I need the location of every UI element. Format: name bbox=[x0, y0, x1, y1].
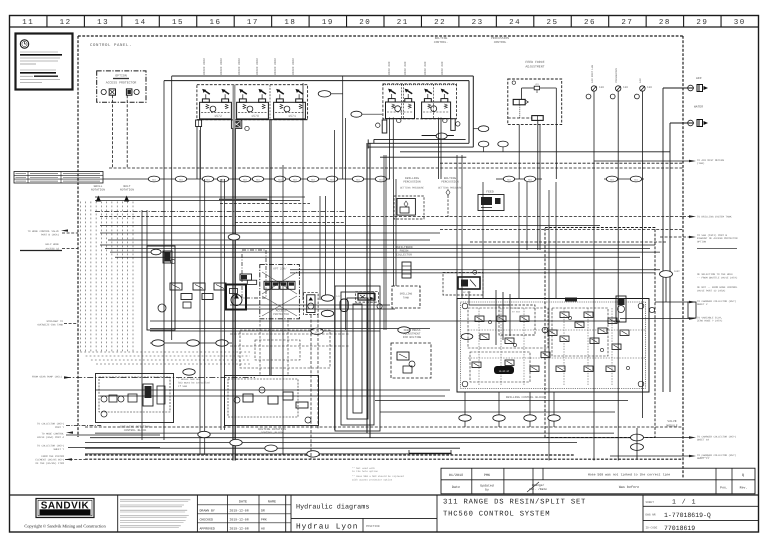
svg-text:CONTROL BLOCK: CONTROL BLOCK bbox=[124, 429, 147, 432]
ellipse 503 bbox=[498, 141, 508, 147]
black valve left-center bbox=[240, 274, 252, 280]
labelled ellipse 160 right bbox=[660, 271, 673, 278]
dashed comb verticals bbox=[79, 202, 81, 353]
svg-text:21: 21 bbox=[397, 18, 409, 27]
svg-text:MODULE: MODULE bbox=[666, 424, 677, 428]
accumulator center bbox=[304, 293, 319, 315]
center ellipses bbox=[321, 295, 333, 301]
main dashed frame left bbox=[77, 36, 79, 437]
svg-text:ROTATION: ROTATION bbox=[91, 188, 105, 191]
thick bar below 1S69 bbox=[219, 199, 267, 201]
bolting rotation control block bbox=[225, 376, 319, 426]
svg-text:19: 19 bbox=[322, 18, 334, 27]
filter unit tall box bbox=[147, 246, 175, 330]
lower wire ellipses row bbox=[459, 415, 471, 421]
legal text bbox=[120, 499, 190, 501]
ellipse right of bank A bbox=[318, 91, 331, 97]
valves row center-left bbox=[170, 283, 182, 290]
annotation TO AIR MIST METERS bbox=[689, 160, 696, 162]
svg-text:1S72: 1S72 bbox=[214, 114, 222, 118]
drilling rotation control block bbox=[96, 374, 174, 423]
wires below access protector bbox=[495, 290, 497, 345]
svg-text:PORT ?: PORT ? bbox=[55, 426, 65, 429]
svg-text:160: 160 bbox=[647, 86, 652, 89]
access protector bold box bbox=[443, 273, 483, 296]
small box above revision table bbox=[408, 450, 410, 453]
svg-text:VALVE (05A) PORT A: VALVE (05A) PORT A bbox=[37, 436, 65, 439]
access protector option box bbox=[97, 71, 146, 102]
svg-text:SHEET ?: SHEET ? bbox=[53, 448, 64, 451]
svg-text:THC560 CONTROL SYSTEM: THC560 CONTROL SYSTEM bbox=[443, 511, 550, 519]
svg-text:1-77018619-Q: 1-77018619-Q bbox=[664, 512, 711, 519]
svg-text:PORT B (05A): PORT B (05A) bbox=[41, 233, 60, 236]
svg-text:26: 26 bbox=[584, 18, 596, 27]
svg-text:XXXX XXX: XXXX XXX bbox=[404, 61, 407, 75]
svg-text:AG: AG bbox=[261, 527, 265, 531]
svg-text:HELP HOSE: HELP HOSE bbox=[45, 243, 59, 246]
svg-text:1S71: 1S71 bbox=[288, 114, 296, 118]
dcb circles bbox=[462, 303, 468, 309]
svg-text:to the hole option: to the hole option bbox=[352, 470, 378, 473]
access protector symbols bbox=[101, 89, 106, 94]
svg-text:CONTROL.: CONTROL. bbox=[434, 41, 449, 44]
svg-text:OVERSIZE-ING TANK: OVERSIZE-ING TANK bbox=[37, 323, 63, 326]
svg-text:if 560: if 560 bbox=[178, 385, 188, 388]
svg-text:Copyright © Sandvik Mining and: Copyright © Sandvik Mining and Construct… bbox=[24, 524, 106, 529]
svg-text:SHEET 2: SHEET 2 bbox=[697, 303, 708, 306]
main dashed frame top bbox=[78, 35, 683, 37]
svg-text:XXXX XXX: XXXX XXX bbox=[441, 61, 444, 75]
svg-text:1S-5F-57: 1S-5F-57 bbox=[499, 370, 510, 373]
svg-text:BOLTING: BOLTING bbox=[435, 37, 448, 40]
dashed comb horizontals bbox=[80, 351, 250, 353]
notice text lower bbox=[20, 69, 56, 71]
ruler band bbox=[10, 26, 759, 28]
dashed box above dcb bbox=[499, 305, 535, 335]
svg-text:UNFILTERED: UNFILTERED bbox=[395, 246, 413, 249]
svg-text:12: 12 bbox=[60, 18, 72, 27]
svg-text:160: 160 bbox=[599, 86, 604, 89]
svg-text:ID-CODE: ID-CODE bbox=[646, 527, 658, 530]
svg-text:XXXXX XXXX: XXXXX XXXX bbox=[220, 58, 223, 75]
sensor 160 a bbox=[591, 86, 596, 91]
svg-text:ACCESS: ACCESS bbox=[276, 310, 287, 313]
svg-text:16: 16 bbox=[209, 18, 221, 27]
nested rect 3 bbox=[347, 298, 368, 419]
bank B ellipse left bbox=[351, 111, 362, 117]
annotation TO CHARGER COLLECTOR ( bbox=[689, 301, 696, 303]
clock icon bbox=[20, 40, 28, 48]
annotation TO 560 (1S11) PORT B bbox=[689, 236, 696, 238]
black bar above dcb bbox=[565, 298, 577, 302]
svg-text:13: 13 bbox=[97, 18, 109, 27]
svg-text:23: 23 bbox=[472, 18, 484, 27]
stacked ellipses bbox=[631, 434, 644, 441]
svg-text:DRILLING ROTATION: DRILLING ROTATION bbox=[120, 426, 150, 429]
dcb inner dashed box 1 bbox=[468, 308, 548, 348]
svg-text:DR: DR bbox=[261, 509, 265, 513]
ellipse left edge dcb bbox=[461, 334, 473, 340]
title block verticals bbox=[117, 495, 119, 532]
bank B wire loop right vertical 2 bbox=[468, 81, 470, 144]
svg-text:AIR: AIR bbox=[696, 77, 702, 80]
svg-text:BOLTING: BOLTING bbox=[444, 177, 456, 180]
bank B lower wires bbox=[388, 118, 390, 180]
svg-text:17: 17 bbox=[247, 19, 259, 27]
svg-text:CONTROL PANEL.: CONTROL PANEL. bbox=[90, 43, 132, 48]
svg-text:SHEET 10: SHEET 10 bbox=[697, 439, 710, 442]
bank B loop bottom 2 bbox=[368, 142, 469, 144]
rotation arrow 2 bbox=[124, 196, 129, 202]
svg-text:Rev.: Rev. bbox=[740, 486, 748, 490]
svg-text:XXXXX XXXX: XXXXX XXXX bbox=[203, 58, 206, 75]
annotation TO CHARGER COLLECTOR ( bbox=[689, 436, 696, 438]
ap2 diagonals bbox=[262, 272, 297, 294]
dcb valves bbox=[475, 316, 484, 322]
svg-text:DATE: DATE bbox=[239, 500, 247, 505]
solenoid valve 1S71 bbox=[274, 102, 306, 119]
svg-text:AIR MIST LUB: AIR MIST LUB bbox=[591, 64, 594, 83]
drcb internals bbox=[101, 396, 107, 402]
svg-text:1471: 1471 bbox=[315, 330, 321, 333]
top bus line 1 bbox=[172, 75, 474, 77]
svg-text:XXXXX XXXX: XXXXX XXXX bbox=[274, 58, 277, 75]
dcb inner dashed box 3 bbox=[470, 352, 530, 382]
svg-text:VALVE PORT 12 (05A): VALVE PORT 12 (05A) bbox=[697, 289, 726, 292]
svg-text:CHECKED: CHECKED bbox=[200, 518, 213, 522]
hose connector ellipses bbox=[148, 176, 159, 182]
svg-text:POSITION: POSITION bbox=[366, 525, 380, 528]
svg-text:27: 27 bbox=[621, 18, 633, 27]
main dashed frame right bbox=[682, 36, 684, 478]
svg-text:160: 160 bbox=[623, 86, 628, 89]
ap2 solenoid row bbox=[264, 281, 271, 289]
svg-text:BOLTING ROTATION: BOLTING ROTATION bbox=[258, 428, 286, 431]
svg-text:SETTING PRESSURE: SETTING PRESSURE bbox=[438, 187, 463, 190]
nested rect 1 bbox=[335, 286, 380, 431]
svg-text:ADJUSTMENT: ADJUSTMENT bbox=[525, 65, 544, 69]
sandvik logo bbox=[36, 499, 94, 518]
bank B ellipse bottom bbox=[436, 133, 447, 139]
svg-text:OPT 230/: OPT 230/ bbox=[273, 267, 287, 271]
ffa wires bbox=[521, 88, 523, 99]
svg-text:Hose 560 was not linked to the: Hose 560 was not linked to the correct l… bbox=[588, 473, 670, 477]
notice box bbox=[16, 34, 73, 90]
svg-text:XXXX XXX: XXXX XXX bbox=[424, 61, 427, 75]
svg-text:Pos.: Pos. bbox=[720, 486, 728, 490]
brcb internals bbox=[234, 397, 240, 403]
svg-text:XXXXX XXXX: XXXXX XXXX bbox=[256, 58, 259, 75]
nested rect 4 bbox=[353, 304, 362, 413]
svg-text:not. /Date: not. /Date bbox=[529, 487, 547, 491]
hose connector row wire seg3 bbox=[604, 178, 644, 180]
drilling tank box bbox=[392, 286, 420, 308]
svg-text:24: 24 bbox=[509, 18, 521, 27]
rotation arrow 1 bbox=[96, 196, 101, 202]
revision table bbox=[441, 468, 755, 494]
svg-text:ADJUSTMENT: ADJUSTMENT bbox=[404, 333, 421, 336]
svg-text:2019-12-08: 2019-12-08 bbox=[230, 518, 249, 522]
dashed line y229 right bbox=[440, 229, 683, 231]
ellipse 483 upper bbox=[478, 126, 488, 132]
svg-text:2019-12-08: 2019-12-08 bbox=[230, 527, 249, 531]
svg-text:OPTION: OPTION bbox=[697, 240, 707, 243]
wires below bank A bbox=[196, 127, 198, 180]
svg-text:WATER: WATER bbox=[694, 106, 703, 109]
dashed verticals center low bbox=[310, 315, 312, 459]
feed press adjustment box bbox=[391, 343, 431, 378]
top bus line 2 bbox=[164, 80, 469, 82]
dcb small circles bbox=[488, 320, 491, 323]
svg-text:DRILLING: DRILLING bbox=[405, 177, 419, 180]
svg-text:PERCUSSION: PERCUSSION bbox=[403, 181, 421, 184]
svg-text:DRILLING CONTROL BLOCK: DRILLING CONTROL BLOCK bbox=[506, 396, 544, 399]
svg-text:by: by bbox=[485, 488, 489, 492]
svg-text:25: 25 bbox=[547, 18, 559, 27]
svg-text:XXXXX XXXX: XXXXX XXXX bbox=[238, 58, 241, 75]
svg-text:COLLECTOR: COLLECTOR bbox=[396, 253, 412, 256]
svg-text:APPROVED: APPROVED bbox=[200, 527, 215, 531]
svg-text:1S70: 1S70 bbox=[251, 114, 259, 118]
access protector option box 2 bbox=[260, 265, 300, 319]
svg-text:77018619: 77018619 bbox=[664, 525, 695, 532]
svg-text:PROTECTOR: PROTECTOR bbox=[273, 313, 289, 316]
svg-text:DRILLING: DRILLING bbox=[400, 293, 413, 296]
svg-text:DRAWN BY: DRAWN BY bbox=[200, 509, 215, 513]
svg-text:ROTATION: ROTATION bbox=[120, 188, 134, 191]
dashed web cluster bbox=[240, 330, 330, 368]
long horizontal wires mid bbox=[95, 196, 305, 198]
svg-text:CONTROL: CONTROL bbox=[494, 41, 507, 44]
svg-text:PMK: PMK bbox=[261, 518, 267, 522]
svg-text:CONTROL BLOCK: CONTROL BLOCK bbox=[261, 432, 284, 435]
svg-text:sheet 11: sheet 11 bbox=[700, 456, 710, 459]
svg-text:PRESSURIZE: PRESSURIZE bbox=[615, 67, 618, 83]
svg-text:FROM GEAR PUMP (05C): FROM GEAR PUMP (05C) bbox=[32, 376, 63, 379]
svg-text:1 / 1: 1 / 1 bbox=[672, 499, 697, 506]
solenoid valve 1S70 bbox=[237, 102, 269, 119]
signal table bbox=[14, 172, 103, 184]
bold pump box bbox=[226, 285, 246, 310]
svg-text:29: 29 bbox=[696, 18, 708, 27]
annotation TO CHARGER COLLECTOR ( bbox=[689, 455, 696, 457]
svg-text:11: 11 bbox=[22, 19, 34, 27]
svg-text:AP 560: AP 560 bbox=[463, 291, 472, 294]
svg-text:VALVE: VALVE bbox=[667, 419, 676, 423]
svg-text:XXXX XXX: XXXX XXX bbox=[388, 61, 391, 75]
valve module dashed box bbox=[545, 228, 655, 438]
svg-text:ZERO HOSE ? (05?): ZERO HOSE ? (05?) bbox=[697, 320, 723, 323]
title block top bbox=[10, 494, 759, 496]
svg-text:20: 20 bbox=[359, 18, 371, 27]
bank B loop bottom 1 bbox=[368, 146, 473, 148]
svg-text:ACCESS PROTECTOR: ACCESS PROTECTOR bbox=[106, 81, 137, 85]
svg-text:OF THE (05/05) ITEM: OF THE (05/05) ITEM bbox=[35, 462, 64, 465]
svg-text:160?: 160? bbox=[674, 270, 680, 273]
valve bank B dashed border bbox=[383, 84, 457, 119]
svg-text:15: 15 bbox=[172, 19, 184, 27]
annotation TO VARIABLE ECU?, bbox=[689, 317, 696, 319]
ffa relief valve bbox=[534, 86, 539, 90]
sensor 160 b bbox=[616, 86, 621, 91]
bank A group separators bbox=[232, 85, 234, 120]
svg-text:SETTING PRESSURE: SETTING PRESSURE bbox=[400, 187, 425, 190]
drilling percussion box bbox=[394, 196, 424, 219]
svg-text:Was before: Was before bbox=[619, 485, 639, 490]
ffa valve 2 bbox=[532, 116, 543, 121]
dashed line y242 right bbox=[470, 241, 666, 243]
svg-text:FOR BOLTING: FOR BOLTING bbox=[403, 336, 422, 339]
svg-text:22: 22 bbox=[434, 18, 446, 27]
svg-text:OPTION: OPTION bbox=[115, 74, 127, 78]
svg-text:(160): (160) bbox=[697, 162, 705, 165]
table rows bbox=[197, 504, 291, 506]
connector block below bank A bbox=[196, 120, 202, 127]
dashed h segs bbox=[220, 203, 310, 205]
bank B inner dashed verticals bbox=[401, 84, 403, 119]
bank B loop bottom 3 bbox=[374, 138, 466, 140]
collector stack bbox=[402, 262, 411, 278]
bank B loop bottom 4 bbox=[422, 135, 454, 137]
dashed line y163 right bbox=[440, 162, 683, 164]
dashed frame bottom b bbox=[85, 458, 683, 460]
dashed line y216 bbox=[100, 216, 683, 218]
svg-text:-- FROM SHUTTLE VALVE (05?): -- FROM SHUTTLE VALVE (05?) bbox=[697, 276, 738, 279]
svg-text:TANK: TANK bbox=[403, 297, 410, 300]
svg-text:28: 28 bbox=[659, 18, 671, 27]
hose connector row wire seg1 bbox=[103, 178, 390, 180]
dashed frame bottom a bbox=[85, 454, 574, 456]
feed force adjustment box bbox=[508, 79, 562, 125]
svg-text:Hydrau Lyon: Hydrau Lyon bbox=[296, 523, 358, 532]
svg-text:2019-12-08: 2019-12-08 bbox=[230, 509, 249, 513]
solenoid valve bbox=[386, 102, 415, 119]
small rects row2 bbox=[181, 294, 192, 300]
svg-text:DWG NR: DWG NR bbox=[646, 514, 656, 517]
solenoid valve bbox=[422, 102, 451, 119]
dashed tank line y168 bbox=[109, 167, 683, 169]
svg-text:FEED FORCE: FEED FORCE bbox=[525, 60, 544, 64]
bank B side rects bbox=[382, 120, 387, 133]
dcb black bar bbox=[494, 366, 514, 374]
svg-text:30: 30 bbox=[734, 18, 746, 27]
ffa valve 1 bbox=[513, 99, 525, 104]
black component 1S69 bbox=[231, 120, 241, 128]
svg-text:with access protector option: with access protector option bbox=[352, 478, 393, 481]
drilling control block bbox=[457, 299, 649, 393]
svg-text:XPS: XPS bbox=[535, 83, 539, 86]
dcb internal wires bbox=[478, 308, 480, 385]
svg-text:TO DRILLING SYSTEM TANK: TO DRILLING SYSTEM TANK bbox=[697, 216, 732, 219]
svg-text:AIR: AIR bbox=[639, 78, 642, 83]
bank B wire loop right vertical 1 bbox=[472, 76, 474, 147]
valve bank A dashed border bbox=[197, 85, 308, 120]
bus bundle below banks bbox=[400, 151, 670, 153]
svg-text:XXXXX XXXX: XXXXX XXXX bbox=[292, 58, 295, 75]
sensor 160 c bbox=[640, 86, 645, 91]
annotation TO DRILLING SYSTEM TAN bbox=[689, 215, 696, 217]
hose row mid ellipses bbox=[152, 340, 164, 346]
dash-dot box center bbox=[242, 250, 266, 298]
svg-text:18: 18 bbox=[284, 18, 296, 27]
hose row mid wire bbox=[150, 342, 232, 344]
horizontals below dcb bbox=[375, 400, 628, 402]
svg-text:FRESH: FRESH bbox=[400, 250, 409, 253]
svg-text:ST 560: ST 560 bbox=[512, 310, 521, 313]
wires from access protector bbox=[112, 95, 114, 168]
rounded rect comp bbox=[340, 299, 348, 312]
svg-text:NAME: NAME bbox=[268, 500, 276, 505]
svg-text:311 RANGE DS RESIN/SPLIT SET: 311 RANGE DS RESIN/SPLIT SET bbox=[443, 498, 586, 507]
lower-left wire ellipses bbox=[198, 431, 210, 437]
svg-text:Q: Q bbox=[742, 473, 744, 478]
bold valve assembly bbox=[356, 292, 379, 302]
long vertical wires bbox=[141, 210, 143, 440]
ellipse 1478 bbox=[228, 234, 240, 240]
ellipse 483 lower bbox=[478, 141, 488, 147]
svg-text:Hydraulic diagrams: Hydraulic diagrams bbox=[296, 504, 369, 512]
svg-text:SHEET: SHEET bbox=[646, 501, 655, 504]
dcb inner dashed box 2 bbox=[552, 308, 608, 356]
svg-text:14: 14 bbox=[135, 19, 147, 27]
svg-text:FEED: FEED bbox=[486, 190, 494, 194]
svg-text:PMK: PMK bbox=[484, 473, 491, 478]
dcb to ellipse row stubs bbox=[464, 392, 466, 427]
svg-text:PERCUSSION: PERCUSSION bbox=[491, 37, 509, 40]
svg-text:Date: Date bbox=[452, 485, 460, 490]
solenoid valve 1S72 bbox=[200, 102, 232, 119]
svg-text:01/2018: 01/2018 bbox=[449, 473, 463, 478]
nested rect 2 bbox=[341, 292, 374, 425]
dashed line y427 bbox=[85, 426, 683, 428]
hose connector row wire seg2 bbox=[496, 178, 542, 180]
notice text upper bbox=[20, 51, 58, 53]
svg-text:FEED PRESS: FEED PRESS bbox=[404, 329, 421, 332]
gauge vertical component bbox=[616, 296, 626, 322]
svg-text:PERCUSSION: PERCUSSION bbox=[441, 181, 459, 184]
